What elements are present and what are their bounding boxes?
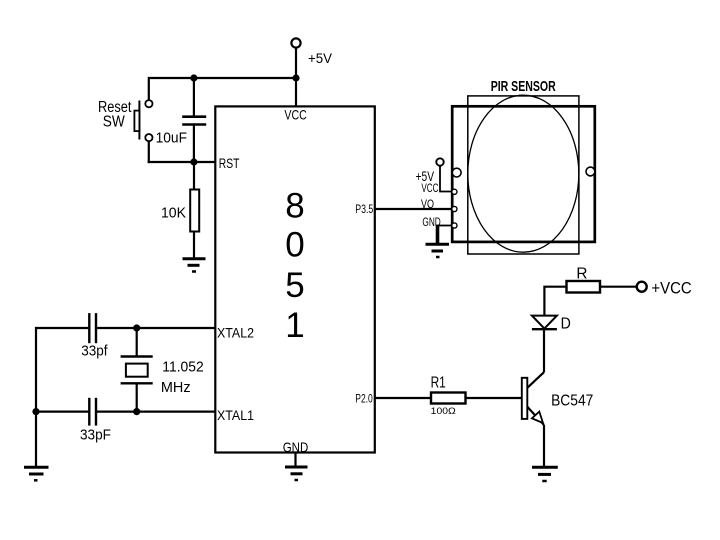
svg-text:R1: R1 xyxy=(431,375,446,392)
PIR outer thin rectangle xyxy=(468,96,579,254)
ground PIR xyxy=(426,244,450,257)
svg-text:R: R xyxy=(576,266,587,283)
terminal +5V xyxy=(291,38,300,47)
wire RST xyxy=(148,161,216,163)
wire PIR +5V stem and vcc corner xyxy=(440,166,452,192)
svg-text:PIR SENSOR: PIR SENSOR xyxy=(491,78,556,95)
svg-text:10uF: 10uF xyxy=(156,129,187,146)
wire R1 to base xyxy=(466,397,523,399)
wire emitter vertical xyxy=(543,425,545,467)
svg-text:XTAL1: XTAL1 xyxy=(217,407,254,423)
wire +5V stem xyxy=(295,48,297,78)
junction left XTAL1 xyxy=(32,408,39,415)
svg-text:P2.0: P2.0 xyxy=(355,394,373,406)
wire P3.5 to PIR VO xyxy=(375,208,452,210)
transistor Q1 BC547 xyxy=(522,372,544,425)
junction at RST xyxy=(190,158,197,165)
PIR left mounting hole xyxy=(452,168,461,177)
svg-text:10K: 10K xyxy=(161,205,186,222)
svg-text:33pf: 33pf xyxy=(81,342,108,359)
ground under transistor xyxy=(532,467,558,481)
svg-text:0: 0 xyxy=(285,225,304,264)
svg-text:100Ω: 100Ω xyxy=(431,406,456,417)
wire PIR gnd horizontal xyxy=(438,225,452,227)
svg-text:VCC: VCC xyxy=(421,183,438,195)
svg-text:VCC: VCC xyxy=(284,107,306,123)
PIR thick rectangle xyxy=(452,106,595,242)
wire XTAL1 xyxy=(36,411,216,413)
PIR pin VO circle xyxy=(452,206,457,211)
svg-text:5: 5 xyxy=(285,266,304,305)
terminal +VCC xyxy=(637,282,647,292)
capacitor C1 10uF xyxy=(182,78,206,162)
resistor R xyxy=(567,281,601,293)
svg-text:BC547: BC547 xyxy=(551,393,593,410)
wire collector vertical xyxy=(543,330,545,372)
svg-text:+VCC: +VCC xyxy=(651,279,691,298)
capacitor C3 33pF xyxy=(89,398,96,426)
svg-text:VO: VO xyxy=(421,199,434,211)
IC U1 8051 body xyxy=(215,106,374,452)
wire PIR gnd stem xyxy=(436,225,440,244)
svg-text:1: 1 xyxy=(285,306,304,345)
svg-text:MHz: MHz xyxy=(161,379,191,396)
ground under 10K xyxy=(183,259,206,272)
resistor R1 xyxy=(431,393,466,404)
junction crystal top xyxy=(133,324,140,331)
PIR lens ellipse xyxy=(468,95,579,252)
ground under IC xyxy=(285,453,308,481)
switch SW1 Reset xyxy=(134,78,296,163)
wire VCC drop xyxy=(295,78,297,106)
terminal PIR +5V xyxy=(436,158,443,165)
svg-text:RST: RST xyxy=(219,155,240,171)
svg-text:11.052: 11.052 xyxy=(162,358,203,375)
svg-text:SW: SW xyxy=(103,114,125,131)
svg-text:+5V: +5V xyxy=(308,50,333,66)
svg-text:XTAL2: XTAL2 xyxy=(217,325,254,341)
junction at +5V xyxy=(292,74,299,81)
PIR pin GND circle xyxy=(452,223,457,228)
resistor R2 10K xyxy=(190,162,199,258)
svg-text:P3.5: P3.5 xyxy=(355,204,373,216)
svg-text:33pF: 33pF xyxy=(80,427,111,444)
svg-text:8: 8 xyxy=(285,187,304,226)
wire P2.0 to R1 xyxy=(375,397,431,399)
PIR right mounting hole xyxy=(586,167,595,176)
diode D1 xyxy=(532,287,567,330)
PIR pin VCC circle xyxy=(452,189,457,194)
capacitor C2 33pf xyxy=(89,313,96,343)
junction crystal bottom xyxy=(133,408,140,415)
wire XTAL2 xyxy=(36,328,216,467)
wire R to +VCC xyxy=(600,286,637,288)
junction at cap top xyxy=(190,74,197,81)
svg-text:D: D xyxy=(561,316,571,333)
svg-text:+5V: +5V xyxy=(416,169,434,184)
ground bottom-left xyxy=(24,467,49,480)
crystal X1 xyxy=(121,328,153,412)
